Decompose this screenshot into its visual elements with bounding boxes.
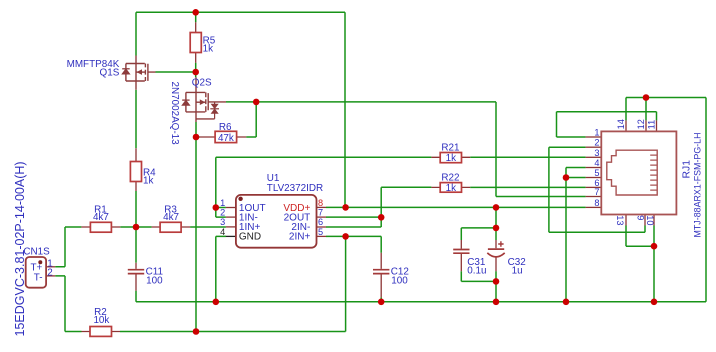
svg-text:2: 2 xyxy=(47,267,53,278)
node RJ1 pin13 pin10 xyxy=(651,243,658,250)
svg-text:1k: 1k xyxy=(143,176,153,187)
capacitor C31 plates xyxy=(453,250,469,254)
wire C32 bottom to ground xyxy=(495,271,497,302)
node VDD+ caps xyxy=(493,204,500,211)
wire right rail down xyxy=(705,98,707,302)
svg-text:10: 10 xyxy=(645,215,655,225)
wire R5 top connection xyxy=(195,12,197,22)
node R6 left source line xyxy=(193,134,200,141)
node U1 GND ground rail xyxy=(213,299,220,306)
resistor R4 leads xyxy=(135,148,137,191)
wire R6 branch vertical xyxy=(255,102,257,137)
wire RJ1 pin5 down to ground xyxy=(565,178,567,302)
capacitor C12 leads xyxy=(380,253,382,297)
svg-text:9: 9 xyxy=(636,215,646,220)
node RJ1 pin4 pin5 xyxy=(563,174,570,181)
wire RJ1 pin11 drop xyxy=(656,112,658,121)
resistor R6 leads xyxy=(200,136,247,138)
U1 pin 1 stub xyxy=(226,207,236,209)
RJ1 pin 4 stub xyxy=(586,167,602,169)
CN1S pin 2 stub xyxy=(46,275,55,277)
zener diode Q2S gate protection xyxy=(210,102,219,119)
svg-text:7: 7 xyxy=(318,208,323,218)
svg-text:CN1S: CN1S xyxy=(23,247,50,258)
wire RJ1 pin10 down to ground xyxy=(653,226,655,302)
wire R5 bottom to Q1S gate node xyxy=(195,63,197,72)
node R1 R3 C11 R4 xyxy=(133,224,140,231)
resistor R5 1k body xyxy=(190,33,201,53)
resistor R2 10k body xyxy=(90,327,112,337)
resistor R1 4k7 body xyxy=(90,222,111,232)
wire CN1S pin2 down to bottom net xyxy=(55,276,65,332)
svg-text:Q1S: Q1S xyxy=(100,68,120,79)
svg-text:100: 100 xyxy=(391,276,408,287)
svg-text:0.1u: 0.1u xyxy=(467,266,486,277)
capacitor C32 leads xyxy=(495,240,497,271)
svg-text:47k: 47k xyxy=(218,133,234,144)
svg-text:4k7: 4k7 xyxy=(163,212,179,223)
U1 pin 2 stub xyxy=(226,216,236,218)
node 2OUT feedback xyxy=(378,214,385,221)
capacitor C32 plus sign xyxy=(498,241,503,246)
resistor R22 leads xyxy=(431,186,470,188)
RJ1 pin numbers top and bottom rotated xyxy=(615,119,657,225)
wire feedback vertical R22 to 2IN- xyxy=(380,187,382,227)
wire U1 GND down to ground rail xyxy=(216,236,226,301)
svg-text:4: 4 xyxy=(220,227,225,237)
U1 pin 8 stub xyxy=(317,206,327,208)
wire top rail right drop to VDD+ xyxy=(344,12,346,207)
svg-text:1: 1 xyxy=(594,128,599,138)
svg-text:R6: R6 xyxy=(219,122,232,133)
COMPONENT BODIES xyxy=(90,33,462,337)
wire node to C11 xyxy=(135,227,137,263)
wire 2IN+ horizontal xyxy=(326,235,381,237)
U1 pin 4 GND stub black xyxy=(226,235,236,237)
wire VDD node down to caps xyxy=(495,207,497,240)
node 2IN+ bottom net xyxy=(342,233,349,240)
wire RJ1 pin14 drop xyxy=(625,98,627,121)
RJ1 pin 8 stub xyxy=(586,206,602,208)
resistor R21 1k body xyxy=(440,153,461,163)
resistor R3 4k7 body xyxy=(160,222,181,232)
resistor R2 leads xyxy=(82,331,121,333)
wire Q2S source vertical xyxy=(195,122,197,332)
wire Q1S gate to node xyxy=(156,71,196,73)
wire bottom net horizontal right of R2 xyxy=(120,331,346,333)
capacitor C11 leads xyxy=(135,263,137,291)
wire RJ1 pin2 horizontal xyxy=(549,146,586,148)
RJ1 pin 6 stub xyxy=(586,186,602,188)
wire 2IN+ node down to bottom net xyxy=(345,236,347,331)
op-amp U1 TLV2372IDR body xyxy=(236,195,317,248)
U1 pin 3 stub xyxy=(226,226,236,228)
wire R21 left run xyxy=(216,156,432,158)
U1 pin 5 stub xyxy=(317,235,327,237)
svg-text:T-: T- xyxy=(34,272,43,283)
RJ1 jack symbol xyxy=(607,150,657,195)
connector CN1S body xyxy=(26,257,46,288)
node Q2S source bottom net xyxy=(193,328,200,335)
wire 2IN- connection xyxy=(326,226,381,228)
svg-text:7: 7 xyxy=(594,187,599,197)
svg-text:8: 8 xyxy=(318,198,323,208)
wire RJ1 pin9 drop xyxy=(644,226,646,233)
node RJ1 pin5 ground rail xyxy=(563,299,570,306)
wire RJ1 pin13 down and right xyxy=(626,226,654,247)
wire RJ1 pin5 horizontal xyxy=(566,177,586,179)
wire 1OUT to 1IN- feedback xyxy=(216,208,226,218)
transistor Q2S MOSFET N-channel xyxy=(186,77,226,122)
svg-text:5: 5 xyxy=(594,168,599,178)
wire gate net down to RJ1 pin7 xyxy=(495,102,497,197)
resistor R22 1k body xyxy=(440,183,461,193)
wire C12 bottom to ground xyxy=(380,297,382,302)
U1 pin 7 stub xyxy=(317,216,327,218)
node VDD+ top rail xyxy=(342,204,349,211)
node 1OUT feedback xyxy=(213,204,220,211)
svg-text:GND: GND xyxy=(239,232,261,243)
wire C31 bottom link xyxy=(461,271,496,281)
capacitor C32 positive plate xyxy=(488,248,504,250)
CN1S pin texts xyxy=(30,258,53,283)
wire C11 bottom to ground rail xyxy=(135,291,137,302)
svg-text:5: 5 xyxy=(318,227,323,237)
resistor R4 1k body xyxy=(130,162,141,182)
svg-text:8: 8 xyxy=(594,198,599,208)
transistor Q2S body diode xyxy=(182,99,189,101)
resistor R21 leads xyxy=(431,156,470,158)
svg-text:4: 4 xyxy=(594,158,599,168)
node gate net R6 branch xyxy=(253,99,260,106)
node R5 top rail xyxy=(192,9,199,16)
wire C31 C32 top link xyxy=(461,228,496,240)
wire node to R22 left xyxy=(381,186,431,188)
wire ground rail xyxy=(136,301,706,303)
wire R21 right to RJ1 pin3 xyxy=(470,156,585,158)
capacitor C11 plates xyxy=(128,270,144,274)
wire to RJ1 pin7 xyxy=(496,196,586,198)
wire RJ1 pin12 drop xyxy=(645,98,647,121)
svg-text:RJ1: RJ1 xyxy=(681,160,692,179)
svg-text:6: 6 xyxy=(318,217,323,227)
svg-text:11: 11 xyxy=(647,120,657,130)
RJ1 pin 12 stub xyxy=(645,120,647,131)
wire Q2S gate net horizontal xyxy=(226,101,496,103)
capacitor C32 curved plate xyxy=(487,253,504,257)
wire RJ1 pin4 horizontal xyxy=(566,167,586,169)
RJ1 pin 5 stub xyxy=(586,177,602,179)
svg-text:Q2S: Q2S xyxy=(192,77,212,88)
transistor Q1S arrow xyxy=(137,69,143,75)
wire VDD+ run U1 pin8 to RJ1 pin8 xyxy=(326,206,586,208)
wire RJ1 pin1 horizontal xyxy=(557,136,586,138)
LEADS xyxy=(46,22,656,331)
RJ1 pin 1 stub xyxy=(586,136,602,138)
node C31 C32 bottom xyxy=(493,278,500,285)
RJ1 pin 2 stub xyxy=(586,146,602,148)
wire R6 left to source line xyxy=(196,136,200,138)
wire R3 right to U1 pin3 xyxy=(190,226,226,228)
svg-text:1u: 1u xyxy=(512,266,523,277)
svg-text:4k7: 4k7 xyxy=(93,212,109,223)
node RJ1 pin10 ground rail xyxy=(651,299,658,306)
wire R1 right to node xyxy=(120,226,151,228)
resistor R5 leads xyxy=(195,22,197,62)
RJ1 pin 3 stub xyxy=(586,156,602,158)
svg-text:1: 1 xyxy=(220,198,225,208)
RJ1 pin 7 stub xyxy=(586,196,602,198)
svg-text:MTJ-88ARX1-FSM-PG-LH: MTJ-88ARX1-FSM-PG-LH xyxy=(692,132,702,237)
svg-text:10k: 10k xyxy=(93,315,109,326)
resistor R6 47k body xyxy=(215,131,237,142)
U1 pin1 marker xyxy=(238,197,242,201)
wire R4 bottom to R1 node xyxy=(135,191,137,227)
RJ1 pin numbers left xyxy=(594,128,599,208)
wire RJ1 pin4 to pin5 xyxy=(565,168,567,178)
svg-text:1k: 1k xyxy=(203,43,213,54)
wire RJ1 top rail pins 14 12 to right rail xyxy=(626,97,706,99)
RJ1 pin 10 stub xyxy=(653,215,655,226)
resistor R3 leads xyxy=(152,226,191,228)
svg-text:TLV2372IDR: TLV2372IDR xyxy=(267,183,323,194)
wire R6 branch horizontal xyxy=(246,136,256,138)
RJ1 pin 14 stub xyxy=(625,120,627,131)
capacitor C12 plates xyxy=(373,270,389,274)
wire C12 top connection xyxy=(380,236,382,252)
wire R22 right to RJ1 pin6 xyxy=(470,186,585,188)
RJ1 pin 11 stub xyxy=(656,120,658,131)
node C32 ground rail xyxy=(493,299,500,306)
wire 1OUT to pin1 stub xyxy=(216,207,226,209)
svg-text:13: 13 xyxy=(615,215,625,225)
svg-text:100: 100 xyxy=(146,276,163,287)
node Q1S gate R5 Q2S drain xyxy=(192,69,199,76)
wire RJ1 pin1 up xyxy=(556,112,558,137)
svg-text:2IN+: 2IN+ xyxy=(289,232,311,243)
CN1S pin 1 stub xyxy=(46,266,55,268)
RJ1 jack contacts xyxy=(650,155,657,190)
RJ1 pin 13 stub xyxy=(625,215,627,226)
svg-text:R21: R21 xyxy=(441,142,460,153)
wire 1OUT up to R21 level xyxy=(215,157,217,207)
U1 pin 6 stub xyxy=(317,226,327,228)
svg-text:15EDGVC-3.81-02P-14-00A(H): 15EDGVC-3.81-02P-14-00A(H) xyxy=(13,161,27,336)
svg-text:1k: 1k xyxy=(446,183,456,194)
svg-text:2N7002AQ-13: 2N7002AQ-13 xyxy=(169,82,180,146)
connector RJ1 body xyxy=(601,131,676,214)
wire top rail left drop to Q1S drain xyxy=(135,12,137,55)
svg-text:12: 12 xyxy=(636,119,646,129)
svg-text:2: 2 xyxy=(220,208,225,218)
wire Q1S source down xyxy=(135,90,137,148)
svg-text:3: 3 xyxy=(220,217,225,227)
wire node to Q2S drain xyxy=(195,72,197,77)
svg-text:3: 3 xyxy=(594,148,599,158)
capacitor C31 leads xyxy=(460,240,462,271)
svg-text:14: 14 xyxy=(616,119,626,129)
svg-text:2: 2 xyxy=(594,138,599,148)
CN1S pin1 marker xyxy=(38,260,42,264)
transistor Q2S arrow xyxy=(200,99,206,105)
wire top rail VCC xyxy=(136,11,345,13)
node C12 ground rail xyxy=(378,299,385,306)
transistor Q1S body diode xyxy=(122,68,130,70)
wire 2OUT to feedback node xyxy=(326,216,381,218)
U1 pin names xyxy=(239,203,311,243)
wire CN1S pin1 to R1 xyxy=(55,227,81,267)
node RJ1 pin12 top xyxy=(643,94,650,101)
U1 pin numbers xyxy=(220,198,323,237)
RJ1 pin 9 stub xyxy=(644,215,646,226)
wire RJ1 pin11 to pin1 run xyxy=(557,111,657,113)
node caps top link xyxy=(493,225,500,232)
transistor Q1S MOSFET P-channel xyxy=(126,56,156,90)
svg-text:1k: 1k xyxy=(446,153,456,164)
wire bottom net horizontal left of R2 xyxy=(65,331,82,333)
wire RJ1 pin2 down to pin9 xyxy=(549,147,645,232)
resistor R1 leads xyxy=(81,226,120,228)
